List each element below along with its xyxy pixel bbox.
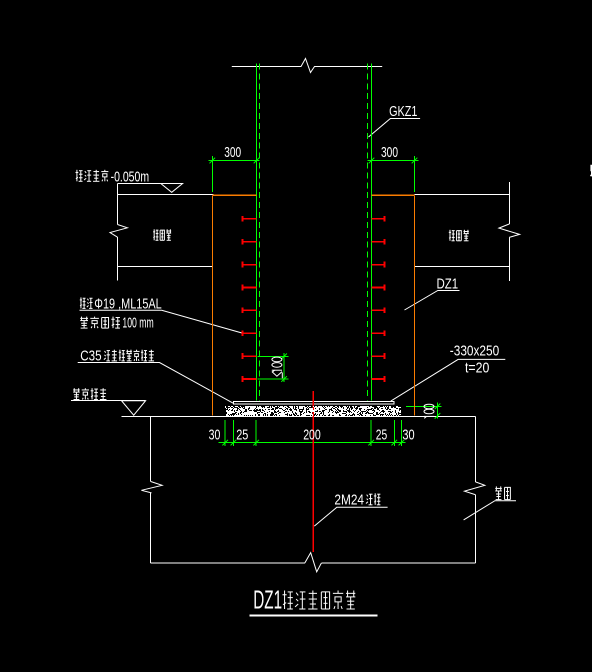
foundation left edge break symbol bbox=[141, 482, 162, 493]
stud row 4 right (栓钉) bbox=[372, 286, 385, 288]
bottom dim chain witness line 6 bbox=[400, 420, 402, 446]
stud spacing dim witness (upper) bbox=[258, 355, 289, 357]
grout 100 dimension line bbox=[437, 403, 439, 419]
svg-text:DZ1: DZ1 bbox=[437, 276, 459, 293]
left 300 dim ticks bbox=[210, 158, 216, 164]
encasement top right horizontal (orange) bbox=[372, 194, 415, 196]
foundation bottom line (right part) bbox=[321, 562, 475, 564]
base plate -330x250 t=20 outline bbox=[234, 401, 394, 404]
rotated dim text <=100 (stud spacing, reads upward) bbox=[272, 372, 282, 377]
hanzi 竖向间距 (vertical spacing) bbox=[80, 317, 88, 329]
stud row 2 right (栓钉) bbox=[372, 241, 385, 243]
left 300 dimension line bbox=[208, 160, 259, 162]
right beam break symbol bbox=[499, 224, 520, 238]
stud spacing dim ticks bbox=[281, 354, 287, 360]
svg-text:-0.050m: -0.050m bbox=[111, 168, 150, 185]
svg-text:2M24: 2M24 bbox=[334, 492, 364, 509]
encasement top left horizontal (orange) bbox=[213, 194, 257, 196]
foundation-top elevation triangle (基顶标高) bbox=[122, 401, 146, 416]
bottom dim chain witness line 1 bbox=[224, 420, 226, 446]
stud row 6 left (栓钉) bbox=[242, 332, 256, 334]
svg-text:30: 30 bbox=[402, 427, 414, 444]
encasement left vertical (orange) bbox=[212, 195, 214, 415]
svg-text:GKZ1: GKZ1 bbox=[389, 103, 417, 120]
svg-text:-330x250: -330x250 bbox=[450, 343, 499, 360]
hanzi 基础 (foundation tag) bbox=[495, 486, 502, 499]
stud row 8 left (栓钉) bbox=[242, 378, 256, 380]
hanzi 锚栓 (anchor bolt) bbox=[366, 494, 372, 505]
elevation symbol triangle (top) bbox=[161, 184, 183, 193]
right 300 dimension witness line bbox=[414, 156, 416, 192]
grout 100 dim witness line bbox=[406, 405, 442, 407]
DZ1 label leader bbox=[405, 291, 460, 311]
bottom dim chain witness line 5 bbox=[393, 420, 395, 446]
left 300 dimension witness line bbox=[211, 156, 213, 192]
svg-text:30: 30 bbox=[209, 427, 221, 444]
right beam bottom flange line bbox=[415, 266, 510, 268]
stud row 8 right (栓钉) bbox=[372, 378, 385, 380]
svg-text:Φ19 ,ML15AL: Φ19 ,ML15AL bbox=[94, 296, 161, 313]
column GKZ1 left flange outer line bbox=[256, 64, 258, 401]
svg-text:t=20: t=20 bbox=[465, 359, 489, 376]
left beam top flange line bbox=[118, 194, 214, 196]
right 300 dim ticks bbox=[369, 158, 375, 164]
stud row 3 left (栓钉) bbox=[242, 264, 256, 266]
foundation right edge (upper) bbox=[475, 417, 477, 482]
stud row 1 left (栓钉) bbox=[242, 218, 256, 220]
stud row 1 right (栓钉) bbox=[372, 218, 385, 220]
anchor bolt centerline 2M24 (red) bbox=[312, 391, 314, 552]
grout 100 dim ticks bbox=[435, 404, 441, 410]
hanzi 栓钉 (stud note) bbox=[80, 297, 86, 308]
基顶标高 label underline bbox=[71, 400, 146, 402]
GKZ1 label leader bbox=[369, 119, 421, 138]
stud row 7 right (栓钉) bbox=[372, 355, 385, 357]
right 300 dimension line bbox=[368, 160, 419, 162]
svg-text:DZ1: DZ1 bbox=[253, 587, 282, 615]
C35 leveling note underline + leader bbox=[78, 363, 234, 404]
title underline bbox=[249, 614, 377, 616]
stud row 6 right (栓钉) bbox=[372, 332, 385, 334]
svg-text:100 mm: 100 mm bbox=[122, 315, 153, 332]
foundation left edge (upper) bbox=[150, 417, 152, 482]
foundation bottom break symbol over anchor bolt bbox=[305, 553, 322, 572]
right beam end vertical (lower) bbox=[509, 237, 511, 281]
foundation top line (基顶) bbox=[122, 416, 476, 418]
stud row 2 left (栓钉) bbox=[242, 241, 256, 243]
stud spacing dimension line (<=100) bbox=[283, 353, 285, 382]
stud note underline + leader (栓钉Φ19,ML15AL) bbox=[80, 310, 243, 333]
bottom dimension chain line 30/25/200/25/30 bbox=[219, 442, 406, 444]
left beam break symbol bbox=[110, 225, 127, 238]
stud spacing dim witness (lower) bbox=[258, 378, 289, 380]
svg-text:25: 25 bbox=[236, 427, 248, 444]
stud row 3 right (栓钉) bbox=[372, 264, 385, 266]
foundation left edge (lower) bbox=[150, 493, 152, 563]
encasement right vertical (orange) bbox=[414, 195, 416, 415]
bottom dim chain witness line 3 bbox=[255, 420, 257, 446]
svg-text:300: 300 bbox=[381, 145, 398, 161]
column GKZ1 right flange inner (dashed) bbox=[367, 64, 369, 401]
svg-text:200: 200 bbox=[303, 427, 321, 444]
hanzi 楼层梁 (right beam tag) bbox=[449, 230, 455, 241]
svg-text:C35: C35 bbox=[80, 348, 101, 365]
column top break line (white) bbox=[232, 59, 382, 73]
stud row 5 right (栓钉) bbox=[372, 309, 385, 311]
2M24 anchor bolt label underline + leader bbox=[314, 507, 387, 526]
column GKZ1 right flange outer line bbox=[371, 64, 373, 401]
hanzi 场地标高 (site elevation label) bbox=[76, 170, 83, 182]
svg-text:25: 25 bbox=[376, 427, 387, 444]
bottom dim chain witness line 2 bbox=[232, 420, 234, 446]
hanzi 细石混凝土找平 (C35 note) bbox=[104, 351, 110, 361]
C35 concrete leveling layer hatch (speckled) bbox=[225, 406, 401, 416]
floor elevation underline (场地标高 -0.050m) bbox=[118, 183, 183, 185]
stud row 4 left (栓钉) bbox=[242, 286, 256, 288]
foundation right edge (lower) bbox=[475, 495, 477, 563]
stud row 7 left (栓钉) bbox=[242, 355, 256, 357]
hanzi 楼层梁 (left beam tag) bbox=[153, 229, 158, 240]
right beam top flange line bbox=[415, 194, 510, 196]
rotated dim text 100 (grout thickness, reads upward) bbox=[424, 415, 434, 417]
-330x250 plate label leader bbox=[391, 359, 506, 401]
bottom dim chain witness line 4 bbox=[370, 420, 372, 446]
foundation bottom line (left part) bbox=[151, 562, 305, 564]
left beam bottom flange line bbox=[118, 266, 213, 268]
bottom dim chain ticks bbox=[222, 440, 228, 446]
left beam end vertical (lower) bbox=[117, 237, 119, 281]
foundation right edge break symbol bbox=[465, 482, 485, 495]
hanzi 基顶标高 (foundation-top elevation) bbox=[73, 388, 80, 399]
基础 (foundation) label underline + leader bbox=[464, 501, 516, 520]
clipped text fragment at right edge bbox=[590, 165, 592, 177]
hanzi 栓钉立面大样 (title) bbox=[283, 591, 293, 609]
left beam end vertical (upper) bbox=[117, 184, 119, 225]
stud row 5 left (栓钉) bbox=[242, 309, 256, 311]
right beam end vertical (upper) bbox=[509, 182, 511, 224]
svg-text:300: 300 bbox=[224, 145, 241, 161]
column GKZ1 left flange inner (dashed) bbox=[259, 64, 261, 401]
